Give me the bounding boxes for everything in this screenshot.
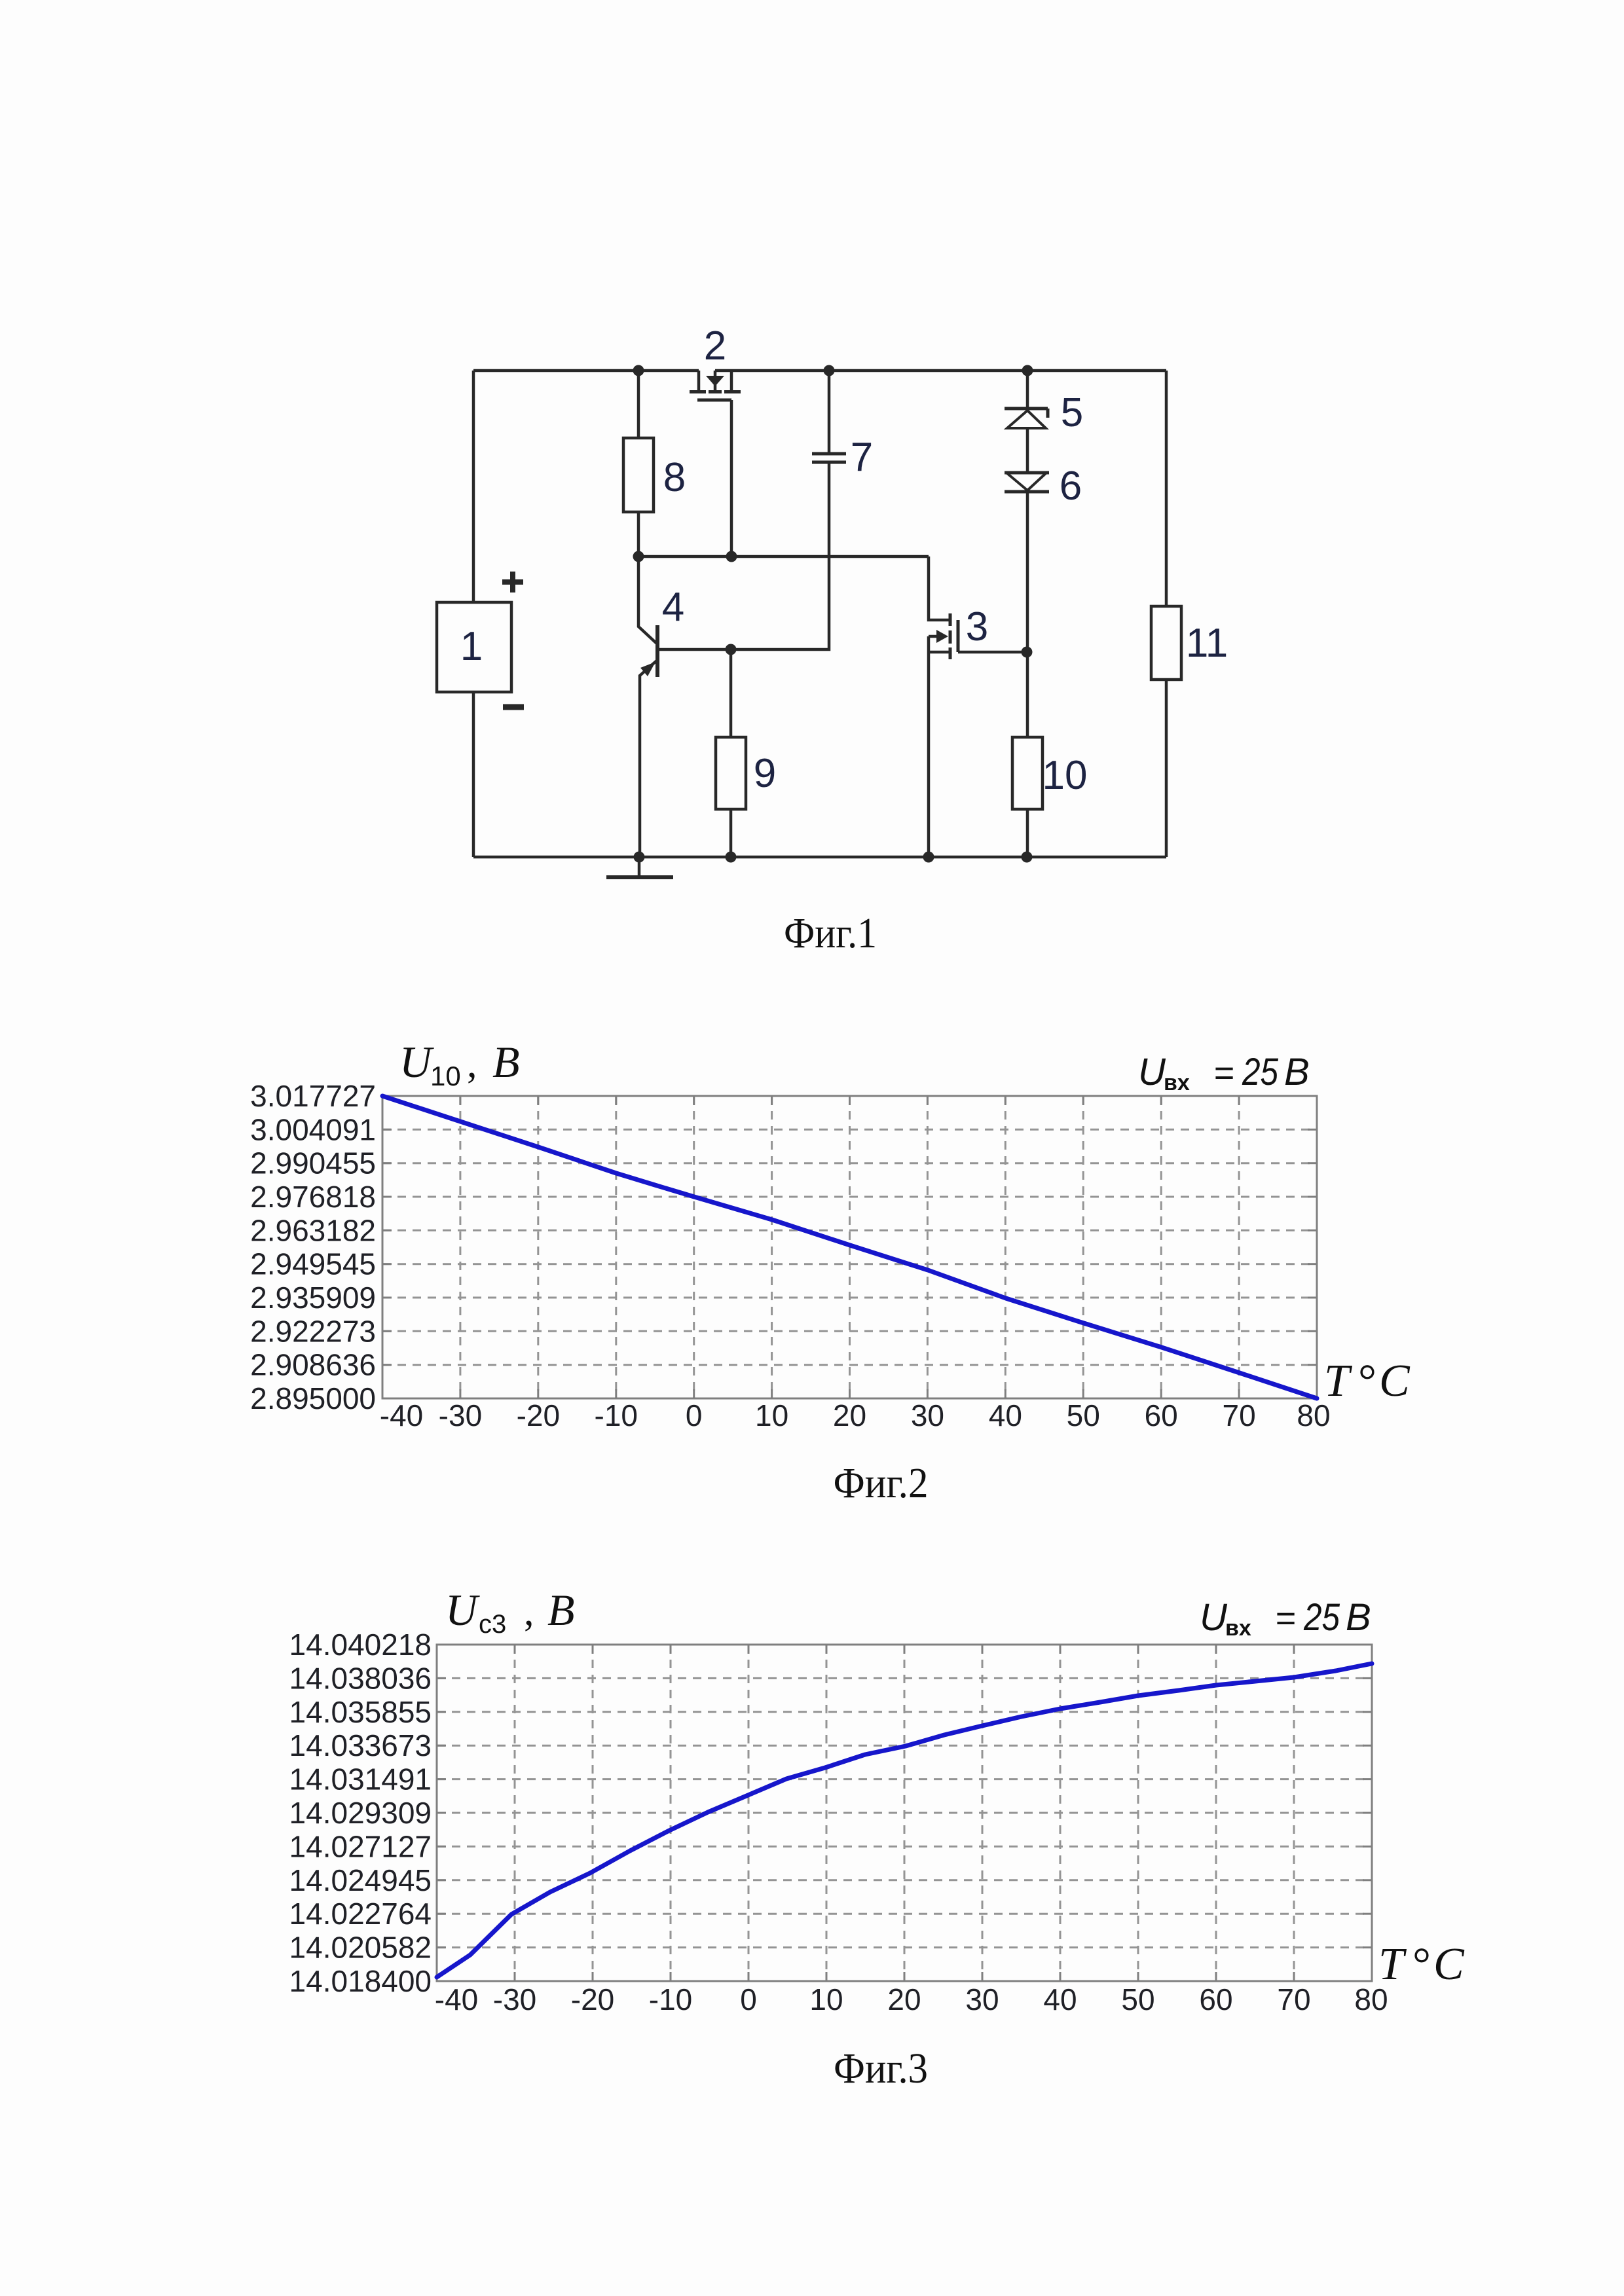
svg-text:-10: -10	[649, 1982, 692, 2016]
svg-text:2.895000: 2.895000	[250, 1381, 376, 1415]
svg-text:B: B	[1346, 1596, 1371, 1639]
svg-text:10: 10	[1043, 753, 1088, 798]
svg-text:,: ,	[467, 1042, 477, 1086]
svg-text:9: 9	[754, 751, 776, 796]
svg-text:14.031491: 14.031491	[289, 1762, 432, 1796]
svg-text:14.027127: 14.027127	[289, 1829, 432, 1863]
svg-text:14.018400: 14.018400	[289, 1964, 432, 1998]
svg-text:-10: -10	[595, 1398, 638, 1432]
svg-text:0: 0	[740, 1982, 757, 2016]
svg-text:3: 3	[966, 604, 988, 649]
svg-text:40: 40	[1043, 1982, 1077, 2016]
svg-text:-40: -40	[380, 1398, 423, 1432]
svg-text:Фиг.2: Фиг.2	[834, 1459, 929, 1507]
svg-text:B: B	[547, 1585, 575, 1635]
svg-text:14.035855: 14.035855	[289, 1695, 432, 1729]
svg-text:Фиг.3: Фиг.3	[834, 2045, 928, 2092]
svg-text:14.038036: 14.038036	[289, 1661, 432, 1695]
svg-text:вх: вх	[1164, 1070, 1190, 1095]
svg-text:30: 30	[911, 1398, 944, 1432]
svg-text:2.990455: 2.990455	[250, 1146, 376, 1180]
svg-text:4: 4	[662, 585, 684, 630]
svg-text:25: 25	[1303, 1596, 1340, 1639]
svg-text:B: B	[1284, 1051, 1310, 1093]
svg-text:C: C	[1379, 1356, 1411, 1406]
svg-text:60: 60	[1199, 1982, 1232, 2016]
svg-text:3.017727: 3.017727	[250, 1079, 376, 1113]
svg-text:,: ,	[524, 1590, 534, 1634]
svg-text:2.908636: 2.908636	[250, 1348, 376, 1382]
svg-text:14.040218: 14.040218	[289, 1628, 432, 1662]
svg-text:20: 20	[887, 1982, 921, 2016]
svg-text:-20: -20	[571, 1982, 614, 2016]
svg-text:вх: вх	[1225, 1616, 1251, 1641]
svg-text:U: U	[399, 1037, 434, 1087]
svg-text:=: =	[1213, 1053, 1234, 1093]
svg-text:U: U	[445, 1585, 480, 1635]
svg-text:70: 70	[1222, 1398, 1255, 1432]
svg-text:-40: -40	[435, 1982, 478, 2016]
svg-text:11: 11	[1186, 621, 1228, 666]
svg-text:14.033673: 14.033673	[289, 1728, 432, 1762]
svg-text:30: 30	[965, 1982, 999, 2016]
svg-text:14.029309: 14.029309	[289, 1796, 432, 1830]
svg-text:14.024945: 14.024945	[289, 1863, 432, 1897]
svg-text:7: 7	[851, 435, 873, 480]
svg-text:B: B	[492, 1037, 520, 1087]
svg-text:5: 5	[1061, 390, 1083, 435]
svg-text:=: =	[1275, 1599, 1296, 1638]
svg-text:2.949545: 2.949545	[250, 1247, 376, 1281]
svg-text:-20: -20	[517, 1398, 560, 1432]
svg-text:C: C	[1433, 1939, 1465, 1990]
svg-text:°: °	[1358, 1356, 1376, 1406]
svg-text:40: 40	[989, 1398, 1022, 1432]
svg-text:U: U	[1138, 1051, 1166, 1093]
svg-text:2.976818: 2.976818	[250, 1180, 376, 1214]
svg-text:60: 60	[1145, 1398, 1178, 1432]
svg-text:25: 25	[1242, 1051, 1278, 1093]
svg-text:-30: -30	[493, 1982, 536, 2016]
svg-text:6: 6	[1060, 464, 1082, 509]
svg-text:°: °	[1412, 1939, 1431, 1990]
svg-text:0: 0	[686, 1398, 703, 1432]
svg-text:с3: с3	[479, 1610, 506, 1639]
svg-text:2.922273: 2.922273	[250, 1314, 376, 1348]
svg-text:50: 50	[1121, 1982, 1154, 2016]
svg-text:10: 10	[755, 1398, 788, 1432]
svg-text:70: 70	[1277, 1982, 1310, 2016]
svg-text:20: 20	[833, 1398, 866, 1432]
svg-text:-30: -30	[439, 1398, 482, 1432]
svg-text:2.935909: 2.935909	[250, 1281, 376, 1315]
svg-text:2: 2	[704, 323, 726, 369]
svg-text:2.963182: 2.963182	[250, 1213, 376, 1247]
svg-text:T: T	[1378, 1939, 1407, 1990]
svg-text:3.004091: 3.004091	[250, 1112, 376, 1146]
svg-text:14.022764: 14.022764	[289, 1897, 432, 1931]
svg-text:1: 1	[460, 624, 483, 669]
svg-text:8: 8	[663, 455, 686, 500]
svg-text:Фиг.1: Фиг.1	[784, 909, 877, 957]
svg-text:T: T	[1324, 1356, 1353, 1406]
svg-text:14.020582: 14.020582	[289, 1931, 432, 1965]
svg-text:U: U	[1200, 1596, 1228, 1639]
svg-text:10: 10	[809, 1982, 843, 2016]
svg-text:10: 10	[430, 1061, 461, 1091]
svg-text:50: 50	[1067, 1398, 1100, 1432]
